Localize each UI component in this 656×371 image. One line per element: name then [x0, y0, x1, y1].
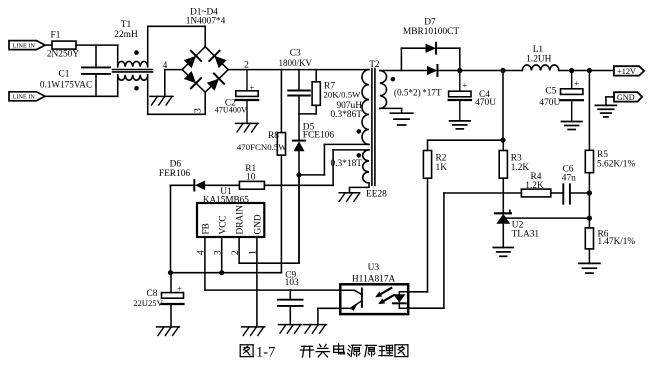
- svg-text:L1: L1: [533, 45, 544, 55]
- svg-text:R3: R3: [511, 153, 522, 163]
- svg-text:D6: D6: [170, 160, 182, 170]
- svg-text:22mH: 22mH: [114, 30, 138, 40]
- svg-text:3: 3: [192, 108, 203, 113]
- svg-text:*17T: *17T: [422, 88, 442, 98]
- svg-text:EE28: EE28: [366, 190, 387, 200]
- svg-text:470U: 470U: [475, 98, 496, 108]
- svg-text:1.2K: 1.2K: [525, 181, 544, 191]
- svg-text:5.62K/1%: 5.62K/1%: [597, 159, 635, 169]
- svg-text:470FCN0.5W: 470FCN0.5W: [237, 142, 287, 152]
- svg-text:470U: 470U: [539, 98, 560, 108]
- svg-text:VCC: VCC: [218, 215, 228, 234]
- svg-text:U3: U3: [368, 263, 380, 273]
- svg-text:47U400V: 47U400V: [215, 106, 247, 115]
- svg-text:R2: R2: [436, 153, 447, 163]
- svg-text:D7: D7: [424, 17, 436, 27]
- svg-text:22U25V: 22U25V: [133, 298, 163, 308]
- svg-text:FB: FB: [202, 223, 212, 234]
- svg-text:1.2UH: 1.2UH: [526, 54, 551, 64]
- svg-text:1N4007*4: 1N4007*4: [186, 17, 226, 27]
- svg-text:0.1W175VAC: 0.1W175VAC: [40, 80, 92, 90]
- svg-text:0.3*86T: 0.3*86T: [330, 110, 362, 120]
- svg-text:KA15MB65: KA15MB65: [203, 194, 249, 204]
- svg-text:C1: C1: [59, 70, 70, 80]
- svg-text:+: +: [177, 284, 182, 293]
- svg-text:0.3*18T: 0.3*18T: [330, 159, 362, 169]
- svg-text:FCE106: FCE106: [303, 130, 335, 140]
- svg-text:GND: GND: [254, 214, 264, 234]
- svg-text:T2: T2: [369, 60, 380, 70]
- svg-text:+: +: [463, 80, 468, 90]
- svg-text:LINE IN: LINE IN: [13, 94, 36, 101]
- svg-text:+: +: [250, 82, 255, 92]
- svg-text:(0.5*2): (0.5*2): [394, 88, 421, 98]
- svg-text:+12V: +12V: [617, 67, 636, 76]
- svg-text:GND: GND: [617, 93, 635, 102]
- svg-text:47n: 47n: [562, 174, 576, 184]
- svg-text:1.47K/1%: 1.47K/1%: [598, 236, 636, 246]
- svg-text:20K/0.5W: 20K/0.5W: [324, 89, 362, 99]
- svg-text:LINE IN: LINE IN: [13, 42, 36, 49]
- svg-text:1K: 1K: [436, 163, 448, 173]
- svg-text:C5: C5: [545, 86, 556, 96]
- svg-text:1800/KV: 1800/KV: [278, 58, 312, 68]
- svg-text:1-7: 1-7: [256, 344, 275, 360]
- svg-text:+: +: [574, 78, 579, 88]
- svg-text:F1: F1: [51, 30, 61, 40]
- svg-text:FER106: FER106: [159, 169, 191, 179]
- svg-text:DRAIN: DRAIN: [236, 205, 246, 235]
- svg-text:103: 103: [285, 278, 299, 288]
- svg-text:2N250Y: 2N250Y: [47, 49, 80, 59]
- svg-text:T1: T1: [121, 20, 132, 30]
- svg-text:TLA31: TLA31: [512, 230, 540, 240]
- svg-text:MBR10100CT: MBR10100CT: [403, 27, 460, 37]
- svg-text:H11A817A: H11A817A: [352, 274, 396, 284]
- svg-text:1.2K: 1.2K: [511, 163, 530, 173]
- svg-text:C3: C3: [290, 49, 301, 59]
- svg-text:R8: R8: [268, 131, 279, 141]
- svg-text:10: 10: [246, 172, 256, 182]
